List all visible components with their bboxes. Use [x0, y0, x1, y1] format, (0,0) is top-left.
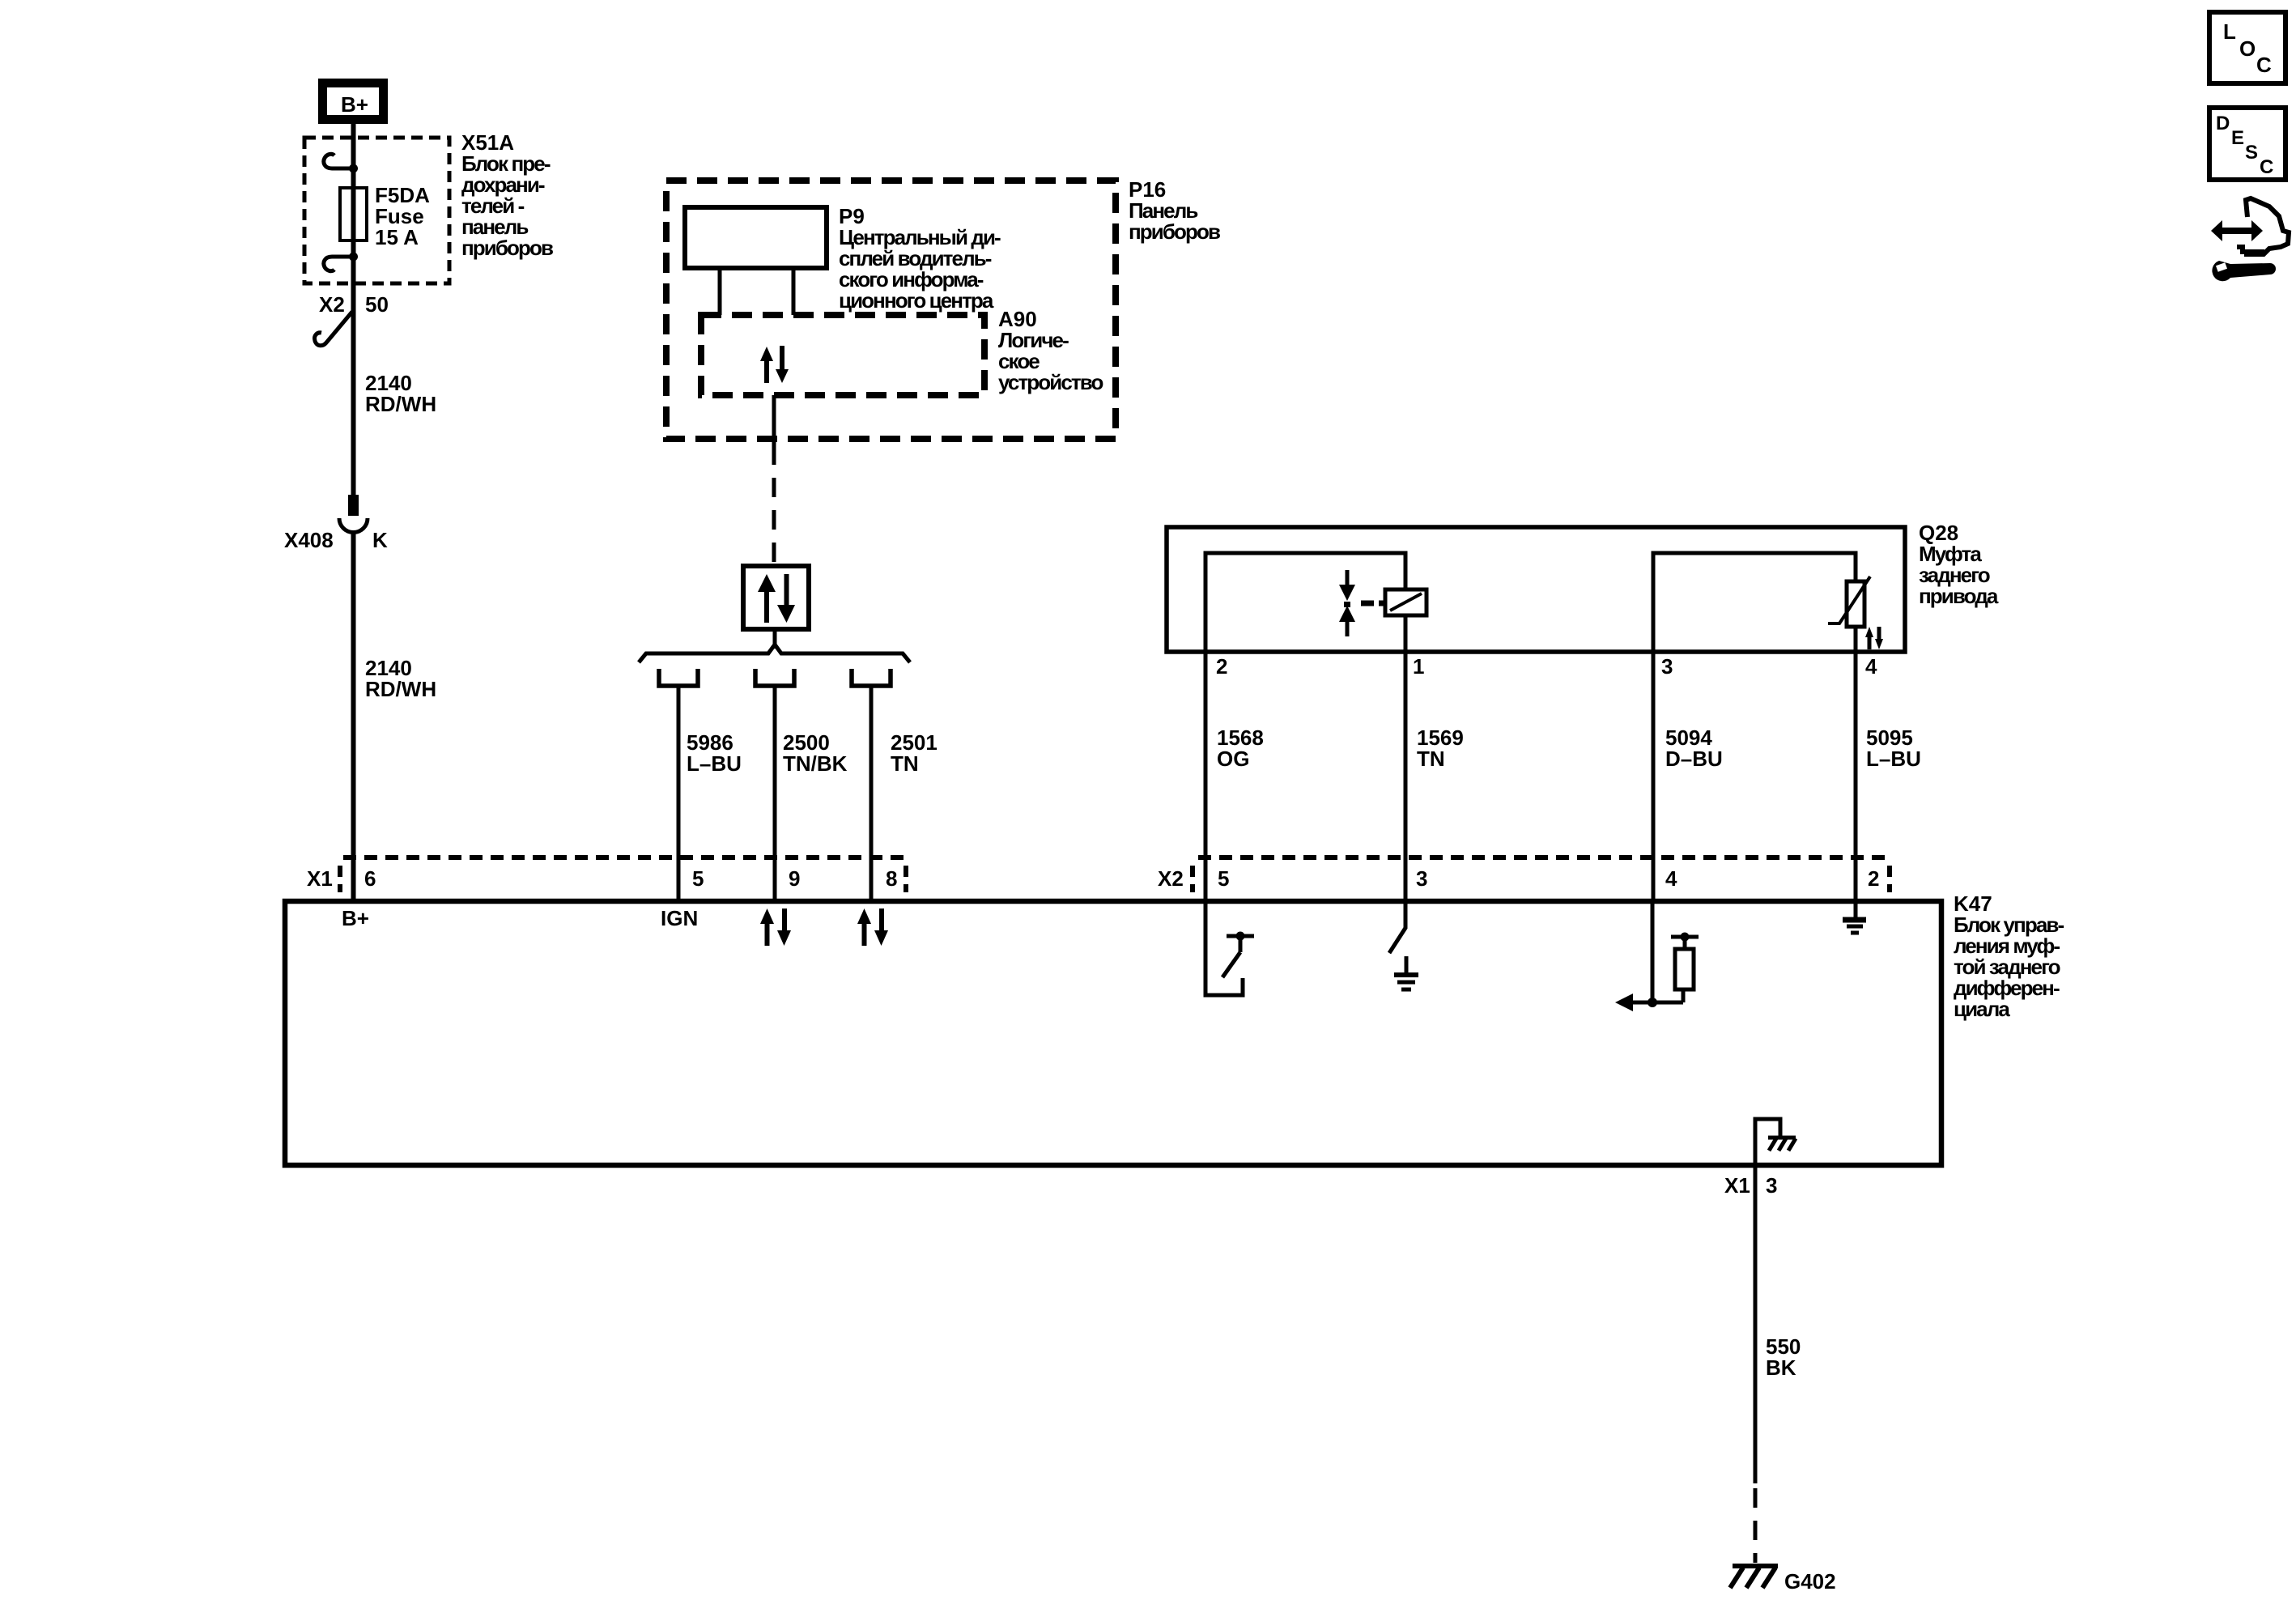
icon LOC box [2209, 12, 2285, 83]
svg-text:2: 2 [1868, 866, 1879, 891]
svg-text:50: 50 [365, 292, 389, 317]
ground G402 [1733, 1564, 1778, 1568]
svg-text:циала: циала [1954, 997, 2010, 1021]
svg-text:L–BU: L–BU [1866, 747, 1921, 771]
wire 5094 D-BU [1652, 652, 1656, 903]
stub below data link box [773, 629, 777, 649]
coupling Q28 box [1167, 527, 1905, 652]
K47 internal switch to ground below pin 3 [1389, 901, 1405, 953]
svg-text:3: 3 [1416, 866, 1427, 891]
connector cup wire 2501 [852, 669, 891, 686]
wire 1569 TN [1404, 652, 1408, 903]
svg-text:5: 5 [1218, 866, 1229, 891]
svg-text:TN: TN [1417, 747, 1445, 771]
svg-text:G402: G402 [1784, 1569, 1836, 1594]
display P9 box [685, 207, 827, 268]
fuse clip terminal top [324, 154, 357, 168]
wire 2140 RD/WH below X408 down to K47 pin 6 [351, 532, 356, 903]
svg-text:C: C [2256, 53, 2272, 77]
Q28 solenoid coil box [1385, 589, 1426, 615]
Q28 thermistor arrows [1865, 627, 1883, 649]
K47 internal arrows under pin 9 [760, 908, 791, 946]
svg-text:X2: X2 [319, 292, 345, 317]
serial data wire from A90 (solid then dashed) [772, 395, 776, 445]
fuse F5DA [340, 188, 367, 240]
inline connector X408 socket arc [339, 518, 368, 533]
svg-text:6: 6 [364, 866, 376, 891]
svg-text:E: E [2231, 127, 2244, 149]
K47 internal arrows under pin 8 [857, 908, 888, 946]
connector X2 dashed line [1198, 855, 1888, 860]
svg-text:TN: TN [891, 751, 919, 776]
svg-text:C: C [2260, 156, 2273, 178]
wire 2501 TN [870, 687, 874, 903]
svg-text:X1: X1 [1724, 1173, 1750, 1198]
data link box arrows [758, 574, 795, 623]
svg-text:OG: OG [1217, 747, 1249, 771]
svg-text:2: 2 [1216, 654, 1227, 679]
inline connector X408 plug [348, 495, 359, 516]
icon wrench [2212, 261, 2276, 281]
brace over connector cups [639, 645, 910, 662]
Q28 valve actuator arrows [1339, 570, 1355, 636]
svg-text:приборов: приборов [1129, 219, 1220, 244]
fuse clip terminal bottom [324, 257, 357, 271]
svg-text:привода: привода [1919, 584, 1999, 608]
fuse block X51A dashed outline [304, 138, 449, 283]
X1 end mark right [904, 866, 908, 892]
K47 internal ground below pin 2 [1854, 901, 1858, 918]
svg-text:приборов: приборов [461, 236, 553, 260]
wire 2500 TN/BK [773, 687, 777, 903]
svg-text:B+: B+ [341, 92, 368, 117]
svg-text:устройство: устройство [998, 370, 1103, 394]
connector X1 dashed line [343, 855, 908, 860]
wire 5095 L-BU [1854, 652, 1858, 903]
svg-text:BK: BK [1766, 1355, 1796, 1380]
data link box [743, 566, 809, 629]
svg-text:D: D [2216, 113, 2230, 134]
ground wire 550 BK [1754, 1164, 1758, 1483]
power node B+ box [323, 83, 384, 120]
Q28 thermistor loop [1653, 553, 1856, 652]
svg-text:9: 9 [789, 866, 800, 891]
icon component lower bar [2237, 247, 2264, 252]
connector X2/50 separation mark [315, 312, 352, 346]
svg-text:ционного центра: ционного центра [839, 288, 994, 313]
connector cup wire 2500 [755, 669, 794, 686]
svg-text:O: O [2239, 36, 2256, 61]
svg-text:TN/BK: TN/BK [783, 751, 848, 776]
dash between actuator and coil [1361, 601, 1374, 606]
svg-text:L–BU: L–BU [687, 751, 742, 776]
svg-text:X408: X408 [284, 528, 334, 552]
svg-text:X1: X1 [307, 866, 333, 891]
K47 internal resistor and arrow below pin 4 [1651, 901, 1655, 1002]
svg-text:5: 5 [692, 866, 704, 891]
A90 up/down arrows [760, 346, 789, 383]
wire 1568 OG [1204, 652, 1208, 903]
instrument panel P16 dashed box [666, 181, 1116, 439]
svg-text:RD/WH: RD/WH [365, 392, 436, 416]
icon component locator arrow [2211, 220, 2263, 241]
svg-text:4: 4 [1665, 866, 1677, 891]
svg-text:3: 3 [1766, 1173, 1777, 1198]
K47 internal chassis ground above pin 3 X1 [1755, 1119, 1780, 1164]
svg-text:8: 8 [886, 866, 897, 891]
P9 stub left [718, 268, 722, 315]
P9 stub right [792, 268, 796, 315]
X1 end mark left [338, 866, 342, 892]
svg-text:S: S [2245, 142, 2258, 164]
K47 internal switch below pin 5 [1205, 901, 1243, 995]
wire B+ feed vertical upper segment [351, 123, 356, 496]
svg-text:D–BU: D–BU [1665, 747, 1723, 771]
module K47 box [285, 901, 1941, 1165]
svg-text:1: 1 [1413, 654, 1424, 679]
logic device A90 dashed box [701, 315, 984, 395]
svg-text:3: 3 [1661, 654, 1673, 679]
svg-text:4: 4 [1865, 654, 1877, 679]
svg-text:L: L [2223, 19, 2236, 44]
Q28 solenoid loop [1205, 553, 1405, 652]
icon DESC box [2209, 108, 2285, 180]
X2 end mark left [1190, 866, 1195, 892]
svg-text:RD/WH: RD/WH [365, 677, 436, 701]
wire 5986 L-BU [677, 687, 681, 903]
connector cup IGN [659, 669, 698, 686]
svg-text:B+: B+ [342, 906, 369, 930]
svg-text:X2: X2 [1158, 866, 1184, 891]
svg-text:IGN: IGN [661, 906, 698, 930]
X2 end mark right [1887, 866, 1892, 892]
svg-text:K: K [372, 528, 388, 552]
icon component outline [2244, 198, 2289, 254]
svg-text:15 A: 15 A [375, 225, 419, 249]
Q28 thermistor [1847, 581, 1864, 627]
